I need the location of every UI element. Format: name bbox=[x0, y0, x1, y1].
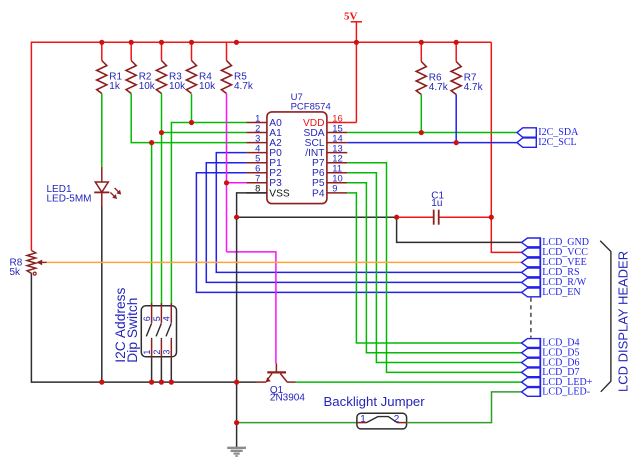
svg-text:5V: 5V bbox=[344, 11, 358, 23]
label I2C Address Dip Switch bbox=[113, 287, 140, 362]
connector flag LCD_LED+ bbox=[522, 377, 593, 388]
wire R8 bottom to ground rail bbox=[31, 273, 256, 382]
connector flag LCD_LED- bbox=[522, 387, 591, 398]
resistor R5 4.7k bbox=[221, 42, 254, 93]
connector flag LCD_EN bbox=[522, 287, 581, 298]
wire jumper to LCD_LED- bbox=[407, 392, 522, 423]
node R6/SDA junction bbox=[419, 130, 424, 135]
connector flag LCD_GND bbox=[522, 237, 589, 248]
wire A2 net: R2 to pin 3 and dip switch pole 1 bbox=[131, 94, 246, 143]
connector flag LCD_D6 bbox=[522, 357, 580, 368]
wire R5 to P3 and Q1 base bbox=[226, 94, 228, 252]
svg-text:1k: 1k bbox=[109, 81, 121, 92]
U7 pin 1 A0 bbox=[246, 112, 282, 129]
node R7/SCL junction bbox=[454, 140, 459, 145]
connector flag LCD_D7 bbox=[522, 367, 580, 378]
U7 pin 11 P6 bbox=[312, 163, 347, 180]
wire VDD pin16 to 5V bbox=[347, 122, 356, 124]
node power rail junction bbox=[419, 40, 424, 45]
wire P4 to LCD_D4 bbox=[347, 193, 521, 343]
svg-text:2N3904: 2N3904 bbox=[270, 393, 305, 404]
svg-text:LED-5MM: LED-5MM bbox=[47, 194, 92, 205]
node junction R4/pin1 bbox=[189, 120, 194, 125]
svg-text:LCD DISPLAY HEADER: LCD DISPLAY HEADER bbox=[616, 251, 631, 392]
wire header bus bar group1 bbox=[539, 238, 541, 298]
resistor R1 1k bbox=[97, 42, 123, 93]
wire dashed header continuation bbox=[530, 298, 532, 338]
svg-text:4.7k: 4.7k bbox=[234, 81, 254, 92]
wire P5 to LCD_D5 bbox=[347, 183, 521, 353]
wire header bus bar group2 bbox=[539, 338, 541, 397]
U7 pin 10 P5 bbox=[312, 173, 347, 190]
wire P6 to LCD_D6 bbox=[347, 173, 521, 363]
wire R1 to LED1 anode bbox=[101, 94, 103, 167]
svg-text:LCD_LED-: LCD_LED- bbox=[542, 387, 590, 398]
wire A1 net: R3 to pin 2 and dip switch pole 2 bbox=[161, 94, 163, 306]
node junction R5/pin7 bbox=[224, 180, 229, 185]
svg-text:9: 9 bbox=[332, 183, 337, 194]
jumper JP1 backlight bbox=[357, 413, 407, 429]
node power rail junction bbox=[354, 40, 359, 45]
node power rail junction bbox=[99, 40, 104, 45]
node power rail junction bbox=[189, 40, 194, 45]
connector flag LCD_D5 bbox=[522, 347, 580, 358]
node ground rail junction bbox=[99, 380, 104, 385]
resistor R4 10k bbox=[186, 42, 216, 93]
transistor Q1 2N3904 bbox=[257, 363, 306, 403]
U7 pin 15 SDA bbox=[304, 122, 348, 139]
U7 pin 8 VSS bbox=[246, 183, 289, 200]
svg-text:10k: 10k bbox=[139, 81, 156, 92]
node jumper/ground junction bbox=[234, 420, 239, 425]
connector flag I2C_SCL bbox=[517, 137, 577, 148]
svg-text:I2C_SCL: I2C_SCL bbox=[538, 137, 576, 148]
svg-text:6: 6 bbox=[142, 316, 152, 321]
resistor R7 4.7k bbox=[451, 42, 484, 94]
node power rail junction bbox=[454, 40, 459, 45]
U7 pin 3 A2 bbox=[246, 132, 282, 149]
U7 pin 9 P4 bbox=[312, 183, 347, 200]
U7 pin 4 P0 bbox=[246, 142, 282, 159]
wire right border 5V to C1/VCC bbox=[491, 42, 521, 252]
svg-text:LCD_EN: LCD_EN bbox=[542, 287, 580, 298]
svg-text:4: 4 bbox=[162, 316, 172, 321]
node power rail junction bbox=[129, 40, 134, 45]
wire Q1 collector to LCD_LED+ bbox=[296, 381, 522, 383]
connector flag LCD_R/W bbox=[522, 277, 587, 288]
U7 pin 12 P7 bbox=[312, 153, 347, 170]
ground symbol bbox=[227, 448, 246, 456]
wire SCL net bbox=[347, 142, 517, 144]
svg-text:2: 2 bbox=[394, 414, 400, 425]
svg-text:5: 5 bbox=[152, 316, 162, 321]
node ground rail junction bbox=[159, 380, 164, 385]
connector flag LCD_VCC bbox=[522, 247, 589, 258]
svg-text:4.7k: 4.7k bbox=[464, 82, 484, 93]
dip switch SW1 I2C Address bbox=[141, 303, 176, 382]
U7 pin 14 SCL bbox=[305, 132, 348, 149]
svg-text:4.7k: 4.7k bbox=[429, 82, 449, 93]
svg-text:Dip Switch: Dip Switch bbox=[125, 298, 140, 363]
svg-text:1u: 1u bbox=[431, 198, 442, 209]
bracket LCD display header bbox=[600, 241, 611, 392]
svg-text:P4: P4 bbox=[312, 188, 325, 199]
wire SDA net bbox=[347, 132, 517, 134]
svg-text:Backlight Jumper: Backlight Jumper bbox=[324, 394, 426, 409]
svg-text:10k: 10k bbox=[199, 81, 216, 92]
svg-text:5k: 5k bbox=[10, 267, 22, 278]
node ground rail junction bbox=[169, 380, 174, 385]
wire left border 5V to R8 bbox=[30, 42, 32, 251]
power 5V symbol bbox=[344, 11, 362, 123]
resistor R3 10k bbox=[156, 42, 186, 93]
node power rail junction bbox=[234, 40, 239, 45]
wire P1 to LCD_R/W bbox=[206, 163, 521, 283]
svg-text:1: 1 bbox=[360, 414, 366, 425]
resistor R6 4.7k bbox=[416, 42, 449, 94]
connector flag LCD_D4 bbox=[522, 338, 580, 349]
wire 5V top rail bbox=[31, 41, 491, 43]
svg-text:10k: 10k bbox=[169, 81, 186, 92]
svg-text:1: 1 bbox=[142, 350, 152, 355]
connector flag LCD_VEE bbox=[522, 257, 587, 268]
node ground rail junction bbox=[149, 380, 154, 385]
wire VSS tee to C1 bbox=[237, 216, 397, 218]
node power rail junction bbox=[159, 40, 164, 45]
wire ground vertical jumper tee bbox=[237, 422, 357, 424]
node junction R3/pin2 bbox=[159, 130, 164, 135]
wire VSS to ground bbox=[237, 193, 267, 448]
wire A0 net: R4 to pin 1 and dip switch pole 3 bbox=[191, 94, 193, 123]
wire LED1 cathode to ground rail bbox=[101, 207, 103, 383]
connector flag LCD_RS bbox=[522, 267, 580, 278]
U7 pin 16 VDD bbox=[303, 112, 347, 129]
label dip switch pin numbers 1 2 3 bbox=[142, 350, 172, 355]
label dip switch pin numbers 6 5 4 bbox=[142, 316, 172, 321]
svg-text:3: 3 bbox=[162, 350, 172, 355]
node ground rail junction bbox=[234, 380, 239, 385]
connector flag I2C_SDA bbox=[517, 127, 579, 138]
wire P0 to LCD_RS bbox=[216, 153, 521, 273]
svg-text:2: 2 bbox=[152, 350, 162, 355]
wire P2 to LCD_EN bbox=[196, 173, 521, 293]
node C1/black junction bbox=[394, 215, 399, 220]
node junction pin3/dip pole1 bbox=[149, 140, 154, 145]
LED LED1 LED-5MM bbox=[47, 167, 122, 207]
U7 pin 2 A1 bbox=[246, 122, 282, 139]
svg-text:8: 8 bbox=[255, 183, 260, 194]
wire C1 left to LCD_GND bbox=[397, 217, 522, 242]
op-amp U1 substitute: IC U7 PCF8574 body bbox=[267, 112, 327, 204]
U7 pin 5 P1 bbox=[246, 153, 282, 170]
wire R8 wiper to LCD_VEE bbox=[47, 261, 522, 263]
potentiometer R8 5k bbox=[10, 251, 47, 279]
node VSS tee bbox=[234, 215, 239, 220]
U7 pin 6 P2 bbox=[246, 163, 282, 180]
node C1/VCC junction bbox=[489, 215, 494, 220]
capacitor C1 1u bbox=[397, 191, 492, 225]
svg-text:VSS: VSS bbox=[269, 188, 290, 199]
svg-text:PCF8574: PCF8574 bbox=[291, 101, 331, 112]
U7 pin 13 /INT bbox=[305, 142, 347, 159]
label U7 PCF8574 bbox=[291, 92, 331, 112]
U7 pin 7 P3 bbox=[246, 173, 282, 190]
wire P7 to LCD_D7 bbox=[347, 163, 521, 373]
resistor R2 10k bbox=[126, 42, 156, 93]
